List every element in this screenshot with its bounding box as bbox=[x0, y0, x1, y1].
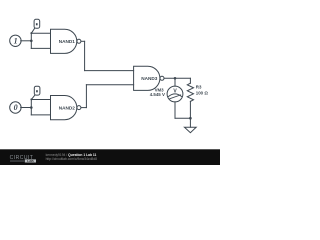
wire bbox=[21, 107, 32, 109]
junction bbox=[30, 106, 33, 109]
svg-text:NAND3: NAND3 bbox=[141, 76, 158, 81]
input source IN1 (logic 1) bbox=[10, 35, 21, 46]
wire bbox=[31, 99, 50, 101]
wire bbox=[189, 118, 191, 127]
wire bbox=[86, 84, 133, 86]
svg-text:4.545 V: 4.545 V bbox=[150, 92, 165, 97]
svg-text:1: 1 bbox=[14, 36, 18, 45]
wire bbox=[81, 40, 85, 42]
resistor R3 bbox=[187, 78, 193, 118]
input source IN0 (logic 0) bbox=[10, 102, 21, 113]
junction bbox=[174, 77, 177, 80]
wire bbox=[81, 107, 86, 109]
wire bbox=[31, 32, 50, 34]
svg-text:NAND2: NAND2 bbox=[59, 105, 76, 110]
wire bbox=[31, 47, 50, 49]
junction bbox=[30, 40, 33, 43]
wire bbox=[85, 85, 87, 108]
wire bbox=[174, 102, 176, 118]
wire bbox=[174, 78, 176, 86]
svg-text:0: 0 bbox=[14, 103, 18, 112]
NAND gate NAND1 bbox=[50, 29, 80, 53]
NAND gate NAND3 bbox=[134, 66, 164, 90]
voltmeter VM3 bbox=[167, 86, 183, 102]
wire bbox=[21, 40, 32, 42]
svg-text:NAND1: NAND1 bbox=[59, 39, 76, 44]
wire bbox=[30, 33, 32, 48]
svg-text:http://circuitlab.com/c/fknw34: http://circuitlab.com/c/fknw34zd8d8 bbox=[46, 157, 97, 161]
svg-text:100 Ω: 100 Ω bbox=[196, 90, 209, 95]
wire bbox=[30, 100, 32, 115]
wire bbox=[164, 77, 190, 79]
wire bbox=[84, 41, 86, 70]
wire bbox=[175, 117, 190, 119]
wire bbox=[85, 70, 134, 72]
node flag A bbox=[30, 19, 39, 34]
svg-text:V: V bbox=[173, 88, 177, 94]
watermark banner bbox=[0, 149, 220, 165]
junction bbox=[189, 117, 192, 120]
node flag B bbox=[30, 86, 39, 100]
wire bbox=[31, 114, 50, 116]
svg-text:LAB: LAB bbox=[27, 159, 34, 163]
CircuitLab logo bbox=[10, 155, 36, 163]
svg-text:R3: R3 bbox=[196, 85, 202, 90]
NAND gate NAND2 bbox=[50, 96, 80, 120]
ground bbox=[184, 127, 196, 133]
